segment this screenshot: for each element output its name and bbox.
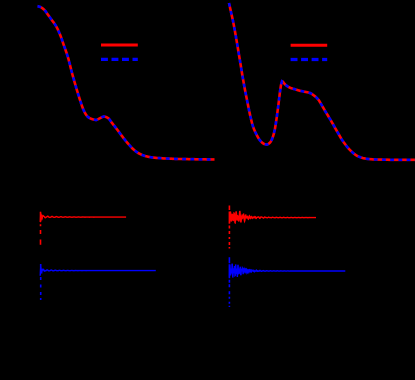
bottom-right blue vertical burst — [228, 257, 230, 307]
bottom-left blue trace — [40, 268, 156, 276]
bottom-left red vertical burst — [40, 212, 42, 245]
left curve red solid — [38, 6, 215, 159]
bottom-right red vertical burst — [228, 206, 230, 249]
right legend red line — [291, 44, 328, 47]
right curve blue dashed — [229, 3, 415, 160]
right legend blue dashed line — [291, 58, 328, 61]
bottom-left blue vertical burst — [40, 264, 42, 301]
bottom-left red trace — [40, 214, 126, 222]
left legend blue dashed line — [101, 58, 138, 61]
right curve red solid — [229, 3, 415, 160]
bottom-right blue trace — [229, 264, 345, 278]
left curve blue dashed — [38, 6, 215, 159]
left legend red line — [101, 44, 138, 47]
bottom-right red trace — [229, 211, 316, 224]
